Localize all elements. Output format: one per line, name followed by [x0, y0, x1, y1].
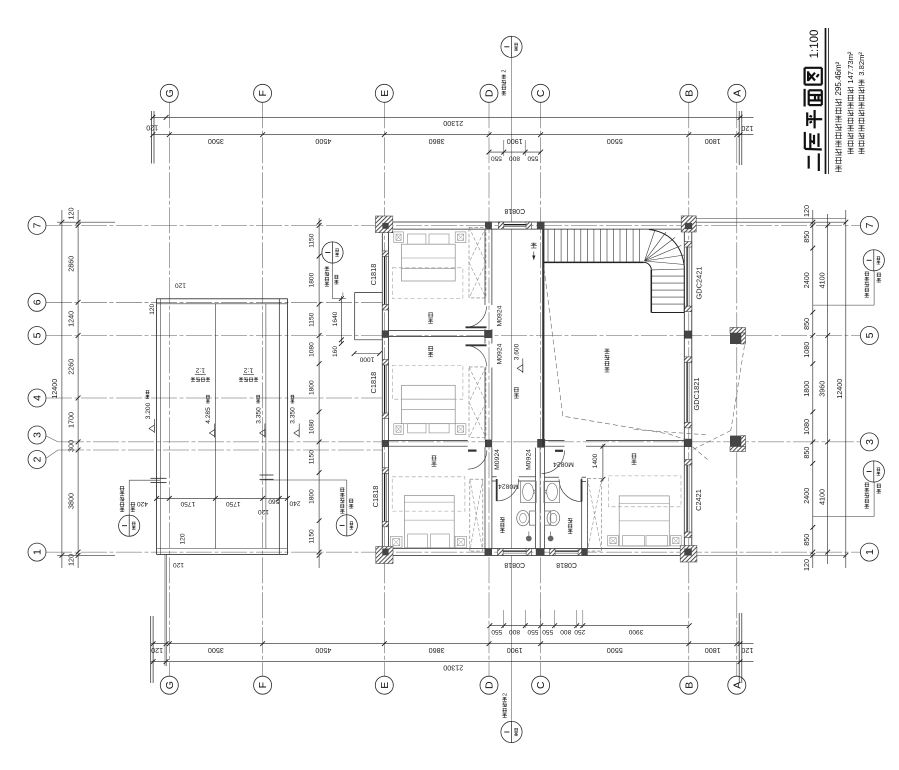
room label bedroom4: [631, 454, 636, 465]
roof elevation 3.350 b: [290, 395, 300, 437]
svg-text:1: 1: [864, 549, 876, 555]
svg-text:1: 1: [32, 549, 44, 555]
column D axis3 (corridor): [485, 440, 492, 448]
svg-text:B: B: [683, 90, 695, 97]
wall bathroom-right north: [545, 477, 587, 481]
window GDC2421 (east wall): [684, 242, 693, 312]
svg-text:1900: 1900: [507, 137, 523, 146]
dimension line bottom segments: [151, 641, 754, 655]
note line 3 area 3.82: [857, 52, 866, 154]
svg-text:5: 5: [32, 332, 44, 338]
svg-text:1900: 1900: [507, 646, 523, 655]
roof ridge line: [214, 304, 216, 549]
detail callout wall bottom (circle): [501, 693, 522, 743]
svg-text:1:2: 1:2: [244, 366, 254, 373]
svg-text:3.200: 3.200: [145, 402, 152, 419]
svg-text:M0924: M0924: [496, 305, 503, 326]
svg-text:21300: 21300: [443, 664, 463, 673]
corner pier SE (hatch): [680, 546, 697, 563]
axis line G (vertical): [168, 102, 170, 676]
axis line 3 (horizontal): [44, 435, 860, 442]
svg-text:4100: 4100: [817, 489, 826, 505]
axis line 6 (horizontal): [46, 301, 382, 303]
svg-text:1700: 1700: [67, 412, 76, 428]
wall corridor west mid: [485, 338, 492, 440]
detail callout gutter mid (circle): [261, 480, 358, 536]
svg-text:A: A: [731, 90, 743, 97]
axis line 2 (horizontal): [44, 450, 382, 460]
nightstand bedroom3 left: [391, 536, 403, 547]
svg-text:1800: 1800: [705, 646, 721, 655]
svg-text:295.46m²: 295.46m²: [834, 61, 843, 95]
svg-text:800: 800: [560, 628, 571, 635]
svg-text:6: 6: [32, 299, 44, 305]
wardrobe bedroom2: [469, 367, 486, 438]
column east axis5: [684, 331, 692, 339]
extension lines right top: [696, 219, 846, 223]
wall axis3 corridor-east part: [545, 440, 564, 446]
floor drain right: [548, 532, 554, 542]
corner pier NE (hatch): [681, 216, 696, 232]
wall bedroom4 west: [582, 478, 588, 548]
svg-text:1080: 1080: [802, 419, 811, 435]
axis bubble 2 left: [28, 451, 46, 469]
canopy dashed line 3: [634, 430, 706, 435]
svg-text:120: 120: [802, 205, 811, 217]
svg-text:1080: 1080: [309, 419, 316, 434]
svg-text:B: B: [683, 682, 695, 689]
axis line 1 (horizontal): [46, 551, 860, 553]
axis bubble A top: [728, 84, 746, 102]
extension lines top-left: [152, 111, 154, 164]
svg-text:M0924: M0924: [494, 449, 501, 470]
axis bubble 3 right: [860, 433, 878, 451]
bed bedroom3: [404, 496, 454, 548]
wall axis3 middle part: [485, 440, 487, 446]
stair upper flight treads: [543, 229, 644, 262]
wall axis3 east part: [586, 440, 684, 446]
dimension line bottom window chain: [487, 610, 691, 635]
title 二层平面图 1:100: [805, 30, 823, 171]
svg-text:3: 3: [32, 432, 44, 438]
dimension aux west stub: [342, 292, 344, 296]
svg-text:D: D: [484, 89, 496, 97]
svg-text:12400: 12400: [50, 379, 59, 399]
label M0924 corridor-south: [525, 449, 532, 470]
svg-text:GDC1821: GDC1821: [692, 378, 701, 411]
svg-text:M0924: M0924: [496, 343, 503, 364]
label M0924 bedroom3: [494, 449, 501, 470]
svg-text:C0818: C0818: [504, 561, 525, 568]
canopy dashed line 1: [731, 346, 745, 431]
svg-text:1150: 1150: [309, 529, 316, 544]
axis line A (vertical): [736, 102, 738, 676]
axis bubble 6 left: [28, 293, 46, 311]
column A-5 with hatch: [730, 328, 746, 345]
room label corridor: [514, 388, 519, 399]
svg-text:560: 560: [268, 498, 279, 505]
svg-text:120: 120: [741, 124, 753, 133]
window centreline C0818 (vertical): [511, 58, 513, 721]
svg-text:2: 2: [503, 693, 509, 696]
svg-text:3500: 3500: [208, 137, 224, 146]
window C1818 #2 (west wall): [382, 360, 389, 419]
column D axis7 (top wall): [485, 222, 492, 229]
svg-text:120: 120: [146, 124, 158, 133]
axis bubble C bottom: [532, 676, 550, 694]
dimension 1400 bedroom4: [592, 444, 605, 482]
svg-text:1240: 1240: [67, 311, 76, 327]
svg-text:4500: 4500: [315, 646, 331, 655]
nightstand bedroom2 left: [394, 424, 404, 435]
svg-text:G: G: [164, 89, 176, 97]
room label living void: [604, 349, 609, 372]
svg-text:M0924: M0924: [525, 449, 532, 470]
wall south outer face: [382, 555, 692, 557]
axis bubble G bottom: [160, 676, 178, 694]
extension lines bottom-right: [739, 613, 742, 683]
toilet bathroom-left: [517, 510, 536, 525]
axis bubble 7 left: [28, 216, 46, 234]
svg-text:850: 850: [802, 318, 811, 330]
axis bubble D top: [480, 84, 498, 102]
svg-text:5500: 5500: [607, 646, 623, 655]
svg-text:147.73m²: 147.73m²: [846, 51, 855, 84]
corner pier SW (hatch): [376, 547, 393, 564]
floor drain left: [526, 532, 532, 542]
svg-text:GDC2421: GDC2421: [695, 267, 704, 300]
nightstand bedroom4 right: [671, 536, 682, 546]
door M0924 bedroom3: [468, 450, 487, 469]
axis bubble A bottom: [728, 676, 746, 694]
window C0818 bottom-right (south wall): [550, 548, 584, 556]
window C1818 #3 (west wall): [382, 468, 389, 527]
room label bedroom2: [428, 346, 433, 357]
wall east outer face: [691, 222, 693, 556]
svg-text:850: 850: [802, 231, 811, 243]
void outline dashed (living room): [544, 268, 686, 440]
svg-text:C2421: C2421: [694, 489, 703, 511]
label GDC1821: [692, 378, 701, 411]
svg-text:1800: 1800: [309, 380, 316, 395]
svg-text:1150: 1150: [309, 233, 316, 248]
dimension chain west of main building: [309, 218, 322, 568]
svg-text:2860: 2860: [67, 256, 76, 272]
svg-text:1:100: 1:100: [809, 30, 821, 59]
detail callout gutter left (circle): [119, 480, 160, 536]
roof slope label 1:2 right: [239, 366, 258, 381]
svg-text:G: G: [164, 681, 176, 689]
svg-text:E: E: [379, 90, 391, 97]
svg-text:C: C: [535, 681, 547, 689]
axis bubble 1 right: [860, 543, 878, 561]
toilet bathroom-right: [545, 510, 560, 525]
wardrobe bedroom4: [588, 478, 602, 551]
column bedroom4 wall south: [581, 549, 587, 556]
svg-text:1750: 1750: [180, 500, 195, 507]
axis line 7 (horizontal): [46, 224, 860, 226]
svg-text:M0824: M0824: [498, 483, 519, 490]
axis bubble E top: [375, 84, 393, 102]
wall west inner face: [388, 222, 390, 556]
extension lines top-right: [739, 111, 742, 165]
svg-text:3800: 3800: [67, 493, 76, 509]
svg-text:1800: 1800: [309, 489, 316, 504]
dimension flue 1000: [352, 351, 382, 362]
svg-text:3.600: 3.600: [514, 343, 521, 360]
column east axis3: [684, 439, 692, 447]
svg-text:21300: 21300: [443, 119, 463, 128]
column west axis3: [382, 440, 389, 447]
wall corridor west lower (bathroom west): [485, 447, 492, 548]
svg-text:420: 420: [137, 500, 148, 507]
dimension line top segments: [146, 124, 753, 146]
wall north outer face: [382, 221, 692, 223]
wall south inner face: [382, 548, 692, 550]
detail callout wall right-upper (circle): [813, 250, 885, 305]
svg-text:1080: 1080: [802, 342, 811, 358]
window C1818 #1 (west wall): [382, 251, 389, 310]
axis bubble 1 left: [28, 543, 46, 561]
svg-text:3.82m²: 3.82m²: [857, 52, 866, 76]
axis line 5 (horizontal): [46, 335, 860, 337]
wardrobe bedroom3: [470, 479, 483, 551]
wall axis C between bathrooms: [536, 448, 545, 549]
axis line 4 (horizontal): [46, 397, 382, 399]
dimension flue 1640/160: [332, 296, 344, 357]
wall axis3 west part: [389, 440, 468, 446]
sink bathroom-right: [544, 481, 560, 502]
stair down label: [531, 243, 537, 260]
corner pier NW (hatch): [376, 216, 393, 233]
label C1818 #3: [371, 486, 380, 508]
svg-text:550: 550: [491, 155, 502, 162]
label M0924 bedroom2: [496, 343, 503, 364]
dimension line right intermediate: [817, 214, 830, 564]
svg-text:120: 120: [741, 646, 753, 655]
svg-text:M0824: M0824: [553, 461, 574, 468]
bed bedroom1: [402, 234, 456, 281]
roof elevation 3.200: [145, 391, 155, 433]
svg-text:4: 4: [32, 395, 44, 401]
svg-text:120: 120: [173, 561, 184, 568]
dimension line bottom total 21300: [151, 659, 754, 672]
svg-text:1750: 1750: [226, 500, 241, 507]
axis bubble 5 left: [28, 327, 46, 345]
svg-text:2400: 2400: [802, 488, 811, 504]
roof right eave lines: [266, 299, 279, 555]
axis line C (vertical): [540, 102, 542, 676]
svg-text:5500: 5500: [607, 137, 623, 146]
room label bathroom-left: [500, 517, 505, 533]
bed bedroom4: [619, 496, 669, 546]
svg-text:1150: 1150: [309, 312, 316, 327]
label C1818 #1: [369, 264, 378, 286]
roof outline accessory building: [157, 299, 288, 555]
label M0824 bathroom-right: [553, 461, 574, 468]
canopy dashed line 4: [693, 447, 708, 460]
svg-text:3900: 3900: [628, 628, 643, 635]
svg-text:1800: 1800: [309, 272, 316, 287]
rug dashed bedroom1: [392, 268, 463, 299]
axis bubble B bottom: [680, 676, 698, 694]
label C1818 #2: [369, 372, 378, 394]
svg-text:4100: 4100: [817, 272, 826, 288]
room label bedroom3: [431, 456, 436, 467]
svg-text:C1818: C1818: [371, 486, 380, 508]
label C0818 bottom-right: [556, 561, 577, 568]
window GDC1821 (east wall): [684, 357, 693, 428]
roof elevation 4.285: [205, 395, 215, 437]
window C2421 (east wall): [684, 460, 693, 538]
svg-text:4500: 4500: [315, 137, 331, 146]
axis bubble 5 right: [860, 327, 878, 345]
svg-text:C0818: C0818: [556, 561, 577, 568]
room label bedroom1: [428, 313, 433, 324]
door M0924 corridor-south: [542, 451, 565, 474]
svg-text:E: E: [379, 682, 391, 689]
dimension line top window 550/800/550: [487, 140, 543, 162]
corridor elevation 3.600: [514, 343, 523, 373]
svg-text:2260: 2260: [67, 359, 76, 375]
wall axis5 bedroom divider: [389, 330, 485, 336]
svg-text:C1818: C1818: [369, 372, 378, 394]
svg-text:C1818: C1818: [369, 264, 378, 286]
corridor east rail / void edge: [542, 229, 544, 446]
svg-text:120: 120: [175, 281, 186, 288]
door M0924 bedroom2: [466, 345, 487, 366]
rug dashed bedroom2: [392, 365, 463, 399]
door M0924 bedroom1: [466, 306, 487, 327]
nightstand bedroom3 right: [455, 536, 466, 547]
column C axis3: [537, 439, 545, 448]
nightstand bedroom1 left: [394, 232, 404, 243]
flue shaft outline: [355, 292, 383, 339]
svg-text:550: 550: [491, 628, 502, 635]
roof slope label 1:2 left: [191, 366, 210, 381]
svg-text:2: 2: [32, 456, 44, 462]
wall bathroom-left north: [492, 477, 536, 481]
axis bubble D bottom: [480, 676, 498, 694]
svg-text:2: 2: [502, 69, 508, 72]
svg-text:1:2: 1:2: [195, 366, 205, 373]
svg-text:1000: 1000: [359, 356, 374, 363]
svg-text:120: 120: [802, 559, 811, 571]
svg-text:120: 120: [179, 533, 186, 544]
door M0824 bathroom-right: [559, 479, 582, 501]
svg-text:3.350: 3.350: [255, 407, 262, 424]
canopy dashed line 2: [693, 431, 731, 450]
svg-text:1800: 1800: [802, 381, 811, 397]
wall north inner face: [382, 228, 692, 230]
dimension line top total 21300: [150, 115, 753, 128]
wardrobe bedroom1: [469, 227, 486, 298]
svg-text:120: 120: [67, 554, 76, 566]
svg-text:1640: 1640: [332, 311, 339, 326]
axis line D (vertical): [488, 102, 490, 676]
svg-text:160: 160: [332, 346, 339, 357]
svg-text:C0818: C0818: [504, 207, 525, 214]
axis bubble F top: [254, 84, 272, 102]
svg-text:1150: 1150: [309, 450, 316, 465]
svg-text:3860: 3860: [429, 646, 445, 655]
label M0824 bathroom-left: [498, 483, 519, 490]
axis bubble 7 right: [860, 216, 878, 234]
note line 1 area 295.46: [834, 61, 843, 171]
svg-text:3.350: 3.350: [290, 407, 297, 424]
nightstand bedroom4 left: [608, 536, 619, 546]
svg-text:3960: 3960: [817, 381, 826, 397]
extension lines bottom-left: [151, 554, 167, 683]
axis bubble E bottom: [375, 676, 393, 694]
nightstand bedroom2 right: [455, 424, 466, 435]
bed bedroom2: [402, 385, 456, 433]
label C0818 bottom-left: [504, 561, 525, 568]
svg-text:7: 7: [32, 222, 44, 228]
ceiling dashed bedroom4: [608, 476, 681, 507]
column A-3 with hatch: [730, 436, 746, 452]
extension line left bottom edge: [57, 554, 115, 556]
svg-text:C: C: [535, 89, 547, 97]
svg-text:240: 240: [289, 499, 300, 506]
rug dashed bedroom3: [392, 477, 465, 511]
svg-text:1080: 1080: [309, 342, 316, 357]
roof gutter cut mark left: [151, 478, 167, 482]
dimension line right segments: [802, 205, 815, 571]
svg-text:3500: 3500: [208, 646, 224, 655]
roof dim 120 bottom: [173, 533, 187, 568]
note line 2 area 147.73: [846, 51, 855, 154]
label C0818 top: [504, 207, 525, 214]
svg-text:850: 850: [802, 534, 811, 546]
svg-text:3: 3: [864, 439, 876, 445]
axis bubble C top: [532, 84, 550, 102]
label C2421: [694, 489, 703, 511]
svg-text:250: 250: [574, 628, 585, 635]
roof elevation 3.350 a: [255, 395, 265, 437]
svg-text:4.285: 4.285: [205, 407, 212, 424]
axis bubble 4 left: [28, 389, 46, 407]
sink bathroom-left: [521, 481, 537, 502]
label GDC2421: [695, 267, 704, 300]
axis line B (vertical): [688, 102, 690, 676]
column C axis7 (top wall): [537, 222, 545, 229]
svg-text:550: 550: [542, 628, 553, 635]
label M0924 bedroom1: [496, 305, 503, 326]
svg-text:800: 800: [509, 628, 520, 635]
dimension line roof 420/1750/1750/560: [137, 496, 301, 515]
detail callout wall top (circle): [501, 36, 522, 95]
roof gutter cut mark right: [260, 475, 274, 479]
wall corridor west upper (D axis): [485, 229, 492, 330]
svg-text:120: 120: [149, 303, 156, 314]
svg-text:F: F: [257, 90, 269, 96]
detail callout wall right-lower (circle): [813, 461, 885, 517]
svg-text:3860: 3860: [429, 137, 445, 146]
door M0824 bathroom-left: [497, 479, 519, 501]
svg-text:5: 5: [864, 332, 876, 338]
extension line left top edge: [57, 221, 115, 223]
svg-text:550: 550: [527, 628, 538, 635]
extension lines right bottom: [697, 554, 846, 556]
stair winder fan treads: [645, 230, 685, 265]
svg-text:800: 800: [509, 155, 520, 162]
svg-text:1400: 1400: [592, 453, 599, 468]
column C axis1 (south wall): [536, 549, 545, 556]
axis line F (vertical): [262, 102, 264, 676]
axis bubble 3 left: [28, 426, 46, 444]
title underline double: [826, 28, 829, 174]
